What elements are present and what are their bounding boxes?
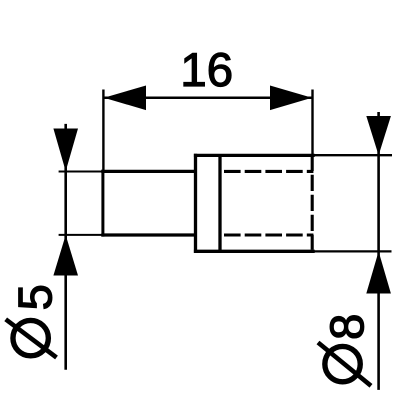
arrow Ø8 bottom [366, 251, 391, 293]
dimension Ø5 [59, 124, 103, 370]
ext line right [311, 90, 313, 156]
head left face [194, 154, 197, 253]
head top edge [194, 154, 315, 157]
arrow Ø5 bottom [53, 235, 78, 276]
label Ø5 diameter circle [13, 320, 48, 355]
label Ø5 digit 5 [19, 286, 52, 309]
part body: pin with Ø5 shaft and Ø8 head [101, 154, 314, 253]
label Ø8 diameter circle [325, 346, 360, 381]
shaft left face [101, 170, 104, 237]
shaft top edge [101, 170, 195, 173]
ext line top [59, 171, 103, 173]
label 16 digit 1 [184, 53, 204, 86]
dimension Ø8 [314, 112, 392, 390]
arrow Ø8 top [366, 116, 391, 155]
head bottom edge [194, 250, 315, 253]
internal solid edge [218, 155, 221, 251]
dim line [103, 97, 312, 100]
ext line top [314, 154, 392, 156]
dimension 16 [103, 90, 312, 172]
arrow Ø5 top [53, 129, 78, 172]
label Ø8 diameter slash [318, 343, 371, 386]
label Ø8 digit 8 [330, 316, 364, 338]
ext line left [102, 90, 104, 172]
dim line [64, 124, 67, 370]
label 16 digit 6 [209, 53, 231, 87]
label Ø5 diameter slash [6, 319, 57, 357]
hidden bore top (dashed) [224, 170, 313, 173]
ext line bottom [59, 234, 103, 236]
ext line bottom [314, 250, 392, 252]
arrow 16 left [104, 86, 146, 111]
dim line [377, 112, 380, 390]
shaft bottom edge [101, 233, 195, 236]
hidden bore bottom (dashed) [224, 233, 313, 236]
hidden right face (dashed) [311, 155, 314, 250]
arrow 16 right [270, 86, 312, 111]
